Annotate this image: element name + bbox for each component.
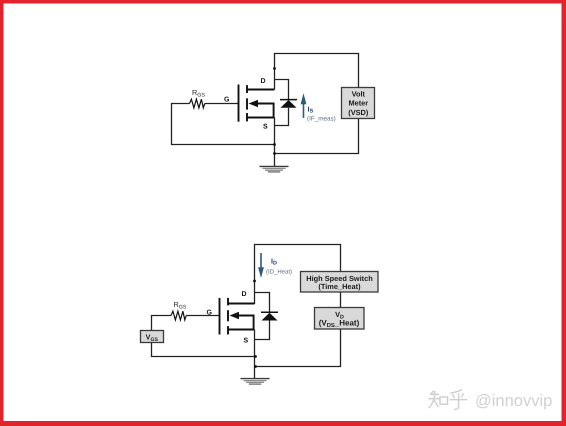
junction dot source left (bottom) — [254, 355, 257, 358]
svg-text:S: S — [244, 338, 249, 345]
wire volt meter bottom to source node — [275, 119, 359, 154]
wire switch to VD box — [340, 292, 342, 308]
svg-text:Volt: Volt — [352, 89, 366, 98]
wire drain to top rail to volt meter — [275, 54, 359, 90]
wire gate left loop — [172, 104, 275, 145]
wire source to ground (bottom) — [254, 330, 256, 379]
wire VGS loop — [152, 316, 172, 331]
svg-text:IS: IS — [308, 107, 314, 115]
mosfet Q1 body arrow — [249, 100, 259, 107]
svg-text:(VSD): (VSD) — [348, 108, 369, 117]
watermark zhihu — [429, 390, 467, 410]
current arrow ID — [258, 253, 264, 278]
svg-text:(Time_Heat): (Time_Heat) — [318, 282, 361, 291]
ground (top) — [260, 166, 289, 172]
resistor RGS (top) — [190, 99, 205, 108]
junction dot drain (top) — [273, 67, 276, 70]
svg-text:G: G — [224, 96, 230, 103]
junction dot source right (bottom) — [254, 365, 257, 368]
svg-text:ID: ID — [271, 259, 277, 267]
wire VD box down to source node — [256, 329, 341, 367]
svg-text:D: D — [242, 291, 247, 298]
wire resistor to gate (bottom) — [186, 315, 219, 317]
junction dot drain (bottom) — [253, 280, 256, 283]
mosfet Q1 — [239, 85, 275, 122]
svg-text:(IF_meas): (IF_meas) — [307, 115, 336, 122]
svg-text:@innovvip: @innovvip — [475, 392, 552, 410]
svg-text:Meter: Meter — [348, 99, 368, 108]
wire resistor to gate — [205, 103, 238, 105]
current arrow Is — [301, 93, 307, 118]
svg-text:(ID_Heat): (ID_Heat) — [266, 269, 292, 276]
wire source down to ground — [274, 118, 276, 167]
svg-text:G: G — [207, 309, 213, 316]
volt meter box U1 — [342, 88, 375, 119]
body diode D1 — [275, 80, 298, 126]
resistor RGS (bottom) — [171, 311, 186, 320]
junction dot source right (top) — [273, 152, 276, 155]
svg-text:S: S — [263, 124, 268, 131]
red border frame — [0, 0, 566, 4]
mosfet Q2 — [220, 298, 255, 335]
svg-text:D: D — [261, 78, 266, 85]
wire drain to top rail to switch — [255, 245, 341, 305]
body diode D2 — [255, 293, 279, 340]
VD box U3 — [315, 308, 365, 330]
junction dot source left (top) — [273, 143, 276, 146]
ground (bottom) — [241, 379, 270, 385]
VGS box B1 — [141, 331, 164, 344]
high speed switch box U2 — [301, 272, 379, 293]
mosfet Q2 body arrow — [230, 312, 240, 319]
wire VGS bottom to source — [152, 343, 256, 357]
